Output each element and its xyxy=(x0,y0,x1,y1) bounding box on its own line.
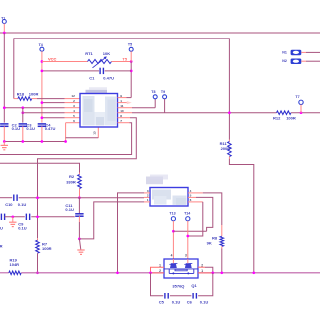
ground symbol main xyxy=(3,142,5,146)
wire cap link xyxy=(170,295,192,297)
wire T14 column xyxy=(187,221,189,259)
op-amp U1 body xyxy=(80,94,118,128)
wire pin3 row xyxy=(4,107,64,109)
node junction C9-R7col xyxy=(36,215,39,218)
node junction C4 pin2 xyxy=(41,101,44,104)
svg-text:R12: R12 xyxy=(273,116,281,121)
connector N2 xyxy=(291,59,302,65)
svg-text:2: 2 xyxy=(201,263,203,267)
svg-text:R18: R18 xyxy=(17,91,25,96)
svg-text:1: 1 xyxy=(201,269,203,273)
resistor R11 200R xyxy=(228,140,230,142)
capacitor edge cut xyxy=(0,214,2,220)
svg-text:T7: T7 xyxy=(295,95,299,99)
wire bottom rail xyxy=(21,272,320,274)
capacitor C11 0.1U xyxy=(78,198,80,214)
svg-text:C6: C6 xyxy=(187,299,193,304)
wire U2 pin5 route down xyxy=(188,196,196,198)
capacitor C3 0.1U xyxy=(19,123,27,125)
wire C1 row right xyxy=(105,70,132,72)
wire cap branch up xyxy=(198,273,213,296)
svg-text:3: 3 xyxy=(73,104,75,108)
svg-text:104R: 104R xyxy=(10,262,20,267)
wire T1 column down to C2 xyxy=(3,33,5,123)
wire pin10 long net xyxy=(118,112,133,114)
wire T5 stub xyxy=(130,51,132,61)
svg-text:4: 4 xyxy=(73,109,75,113)
wire R11 bottom route to rail xyxy=(228,157,230,159)
wire T5 column down to pin 9 row xyxy=(130,62,132,98)
svg-text:VCC: VCC xyxy=(48,56,57,61)
svg-text:T4: T4 xyxy=(39,43,43,47)
wire pin6 row to ground rail xyxy=(66,122,80,124)
capacitor C2 0.1U xyxy=(0,123,8,125)
svg-text:5: 5 xyxy=(73,114,75,118)
wire Q1 right pin 1 xyxy=(198,272,213,274)
wire C9 row right to C11 xyxy=(31,216,74,218)
wire pin13 route xyxy=(97,127,99,138)
wire light second net y=38.5 from x=13.8 to x=229.4 xyxy=(14,38,230,40)
op-amp U1 ghost fill xyxy=(83,96,95,125)
ground symbol C11 xyxy=(79,239,80,250)
svg-text:6: 6 xyxy=(73,119,75,123)
svg-text:0.1U: 0.1U xyxy=(18,225,27,230)
node junction T14 xyxy=(186,235,189,238)
node junction rail mid xyxy=(211,271,214,274)
capacitor C4 0.47U xyxy=(38,123,46,125)
op-amp U2 body xyxy=(150,188,188,207)
svg-text:U: U xyxy=(0,226,3,231)
node junction T4-C1 xyxy=(41,70,44,73)
svg-text:0.47U: 0.47U xyxy=(45,126,56,131)
terminal T13 xyxy=(171,217,175,221)
svg-text:0.1U: 0.1U xyxy=(172,299,181,304)
svg-text:0.1U: 0.1U xyxy=(65,207,74,212)
wire VCC row to RT1 xyxy=(42,61,88,63)
node Q1 inner dots xyxy=(172,272,174,274)
node junction T7 xyxy=(300,111,303,114)
wire U2 pin1 route to C11 bottom xyxy=(144,201,150,203)
wire pin4 row xyxy=(23,112,65,114)
wire C3 column xyxy=(22,108,24,123)
wire T4 column down to C4 xyxy=(41,51,43,122)
node junction T13 xyxy=(172,230,175,233)
ghost arrow pin1 xyxy=(127,101,132,104)
node junction C2 pin3 xyxy=(3,106,6,109)
svg-text:100R: 100R xyxy=(29,91,39,96)
wire pin5 row xyxy=(42,117,65,119)
svg-text:N2: N2 xyxy=(282,59,287,63)
wire ground rail y=141.5 xyxy=(4,141,65,143)
op-amp U2 ghost image above xyxy=(146,177,163,185)
resistor RT1 trimmer xyxy=(88,60,112,64)
node junction C11 bottom xyxy=(78,238,81,241)
wire Q1 left pin 2 xyxy=(151,272,165,274)
wire C1 row left xyxy=(42,70,99,72)
wire pin2 row xyxy=(42,102,65,104)
capacitor C10 0.1U xyxy=(13,195,15,201)
node junction C1 row xyxy=(130,70,133,73)
svg-text:T5: T5 xyxy=(122,56,127,61)
wire RT1 to T5 column xyxy=(112,61,132,63)
svg-text:T14: T14 xyxy=(184,212,190,216)
svg-text:T13: T13 xyxy=(169,212,175,216)
capacitor C9 0.1U xyxy=(25,214,27,220)
terminal T1 xyxy=(2,20,6,24)
transistor Q1 bridge xyxy=(175,269,187,271)
wire top horizontal net y=33 xyxy=(0,32,320,34)
wire net B row to R2 xyxy=(0,163,80,172)
wire T1 stub xyxy=(3,24,5,34)
transistor Q1 body xyxy=(164,259,198,278)
transistor Q1 fin right xyxy=(185,263,192,268)
resistor R2 330R xyxy=(79,173,81,175)
node junction C3 pin3 xyxy=(21,106,24,109)
resistor R18 100R xyxy=(14,98,18,100)
transistor Q1 fin left xyxy=(170,263,177,268)
op-amp U2 ghost fill xyxy=(152,190,171,200)
svg-text:T1: T1 xyxy=(1,16,5,20)
terminal T8 xyxy=(153,95,157,99)
node junction Q1 rail left xyxy=(149,271,152,274)
node junction T1 on net y=33 xyxy=(3,32,6,35)
wire pin1 stub xyxy=(118,102,127,104)
svg-text:0.1U: 0.1U xyxy=(26,126,35,131)
resistor R19 104R xyxy=(9,271,21,275)
capacitor C1 0.47U xyxy=(99,68,101,74)
wire pin12 row xyxy=(32,98,37,100)
svg-text:3576Q: 3576Q xyxy=(172,284,184,289)
wire C10 row left xyxy=(0,197,12,199)
ground symbol C9 xyxy=(12,217,14,222)
svg-text:100R: 100R xyxy=(286,116,296,121)
wire C10 row right to IC2 pin2 xyxy=(19,197,144,199)
svg-text:C10: C10 xyxy=(5,202,13,207)
terminal T4 xyxy=(40,47,44,51)
svg-text:100R: 100R xyxy=(42,246,52,251)
wire pin10 net right segment xyxy=(291,112,320,114)
wire pin11 route to T8 xyxy=(118,107,133,109)
svg-text:RT1: RT1 xyxy=(85,51,93,56)
svg-text:T5: T5 xyxy=(128,42,132,46)
node junction C3 pin4 xyxy=(21,111,24,114)
wire Q1 left pin 1 jog xyxy=(151,267,165,273)
capacitor C5 0.1U xyxy=(164,293,166,299)
wire T13 link to pin5 route xyxy=(173,230,206,232)
transistor Q1 inner rail xyxy=(164,268,198,270)
capacitor C6 0.1U xyxy=(192,293,194,299)
wire N1 net xyxy=(301,51,306,53)
svg-text:9K: 9K xyxy=(207,240,212,245)
wire C9 row xyxy=(5,216,25,218)
node junction R8 rail xyxy=(220,271,223,274)
wire T13 column xyxy=(172,221,174,259)
svg-text:13: 13 xyxy=(92,131,96,135)
terminal T7 xyxy=(299,100,303,104)
svg-text:N1: N1 xyxy=(282,50,287,54)
svg-text:2: 2 xyxy=(147,194,149,198)
wire bottom rail left xyxy=(0,272,9,274)
wire U2 pin6 route to T14 column xyxy=(188,201,203,203)
wire pin7 route xyxy=(118,122,130,124)
resistor R7 100R xyxy=(37,238,39,240)
svg-text:C5: C5 xyxy=(159,299,165,304)
terminal T14 xyxy=(186,217,190,221)
svg-text:T8: T8 xyxy=(151,90,155,94)
node junction C4 pin5 xyxy=(41,116,44,119)
terminal T9 xyxy=(163,95,167,99)
wire vertical R11 column x=229.4 xyxy=(228,39,230,140)
node junction rail right xyxy=(252,271,255,274)
svg-text:330R: 330R xyxy=(66,180,76,185)
wire T7 stub xyxy=(300,105,302,113)
node junction T5-VCC xyxy=(130,60,133,63)
svg-text:2: 2 xyxy=(159,269,161,273)
svg-text:0.1U: 0.1U xyxy=(18,202,27,207)
wire U2 pin4 route to R9 xyxy=(188,192,203,194)
node junction R2-C10 row xyxy=(78,196,81,199)
svg-text:0.1U: 0.1U xyxy=(200,299,209,304)
svg-text:C1: C1 xyxy=(89,75,95,80)
svg-text:3: 3 xyxy=(185,254,187,258)
node junction R11 bottom xyxy=(228,111,231,114)
svg-text:0R: 0R xyxy=(0,243,3,248)
svg-text:R2: R2 xyxy=(69,174,75,179)
svg-text:10K: 10K xyxy=(103,51,110,56)
svg-text:1: 1 xyxy=(159,263,161,267)
resistor R8 9K xyxy=(221,234,223,236)
wire N2 net xyxy=(301,60,306,62)
svg-text:200R: 200R xyxy=(221,146,231,151)
node junction C10-R7col xyxy=(36,196,39,199)
wire pin8 route xyxy=(118,117,131,119)
svg-text:0.47U: 0.47U xyxy=(103,75,114,80)
node junction pin3 rail xyxy=(116,271,119,274)
svg-text:12: 12 xyxy=(71,94,75,98)
wire Q1 top pin 4 xyxy=(172,259,174,263)
terminal T5 xyxy=(129,47,133,51)
node junction R7 rail xyxy=(36,271,39,274)
node junctions ground rail xyxy=(3,140,6,143)
node VCC junction xyxy=(41,60,44,63)
wire pin9 stub to T5 column xyxy=(118,97,127,99)
svg-text:R8: R8 xyxy=(212,236,218,241)
connector N1 xyxy=(291,50,302,56)
svg-text:2: 2 xyxy=(73,99,75,103)
svg-text:4: 4 xyxy=(171,254,173,258)
wire T9 column xyxy=(164,99,166,113)
node junction C9 ground xyxy=(11,215,14,218)
wire Q1 top pin 3 xyxy=(187,259,189,263)
wire U2 pin3 route to rail xyxy=(144,192,150,194)
svg-text:T9: T9 xyxy=(161,90,165,94)
op-amp U1 ghost image above xyxy=(86,90,108,94)
svg-text:Q1: Q1 xyxy=(191,283,197,288)
wire Q1 right pin 2 xyxy=(198,266,205,268)
wire vertical route x=13.8 down to R18 row xyxy=(13,39,15,99)
resistor R12 100R xyxy=(277,111,292,115)
wire cap branch down xyxy=(151,273,164,296)
